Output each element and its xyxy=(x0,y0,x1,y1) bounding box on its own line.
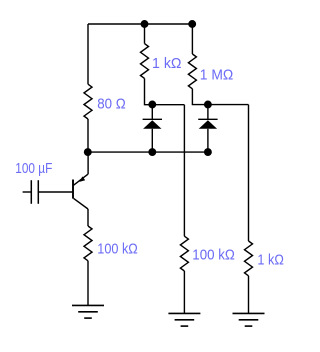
svg-text:1 MΩ: 1 MΩ xyxy=(200,67,234,84)
node dot right diode top xyxy=(204,101,212,109)
wire 1 MΩ bottom corner across to right branch xyxy=(192,89,248,105)
wire collector vertical down to 100 kΩ xyxy=(87,209,89,226)
wire right branch descending to 1 kΩ xyxy=(248,105,250,241)
svg-text:100 kΩ: 100 kΩ xyxy=(97,241,138,258)
node dot left diode top xyxy=(148,101,156,109)
svg-text:1 kΩ: 1 kΩ xyxy=(257,252,284,269)
svg-text:100 µF: 100 µF xyxy=(15,160,52,177)
wire 1 MΩ branch from top rail xyxy=(191,24,193,54)
ground (right) xyxy=(233,313,265,326)
wire 80 ohm resistor to mid node xyxy=(87,119,89,152)
ground (middle) xyxy=(168,313,200,326)
node dot top rail right xyxy=(188,20,196,28)
node dot mid rail left xyxy=(84,148,92,156)
ground (left) xyxy=(72,305,104,318)
svg-text:1 kΩ: 1 kΩ xyxy=(152,55,182,72)
wire mid rail xyxy=(88,151,208,153)
resistor 1 kΩ (top) xyxy=(141,44,149,79)
wire emitter vertical (mid node down to transistor) xyxy=(87,152,89,174)
wire 1 kΩ to right ground xyxy=(248,276,250,314)
node dot left diode bottom xyxy=(148,148,156,156)
svg-text:80 Ω: 80 Ω xyxy=(97,96,126,113)
wire left branch vertical (top rail to 80 ohm resistor) xyxy=(87,24,89,84)
svg-text:100 kΩ: 100 kΩ xyxy=(192,247,235,264)
node dot right diode bottom xyxy=(204,148,212,156)
node dot top rail left xyxy=(141,20,149,28)
wire 1 kΩ branch from top rail xyxy=(144,24,146,44)
diode D2 (right, anode bottom / cathode top) xyxy=(198,105,217,153)
wire base lead (capacitor to transistor base) xyxy=(38,191,72,193)
capacitor C1 100 µF xyxy=(23,180,39,204)
resistor 100 kΩ (left, emitter follower load) xyxy=(84,226,92,261)
wire middle branch descending to 100 kΩ xyxy=(183,105,185,237)
wire 100 kΩ to middle ground xyxy=(183,271,185,313)
resistor 80 Ω xyxy=(84,84,92,119)
wire 100 kΩ to left ground xyxy=(87,261,89,306)
transistor Q1 (PNP) xyxy=(73,174,88,209)
wire 1 kΩ bottom corner across to middle branch xyxy=(145,78,185,104)
resistor 100 kΩ (middle bottom) xyxy=(180,236,188,271)
resistor 1 kΩ (bottom right) xyxy=(245,241,253,276)
diode D1 (left, anode bottom / cathode top) xyxy=(143,105,162,152)
wire top rail xyxy=(88,23,192,25)
resistor 1 MΩ xyxy=(188,54,196,89)
